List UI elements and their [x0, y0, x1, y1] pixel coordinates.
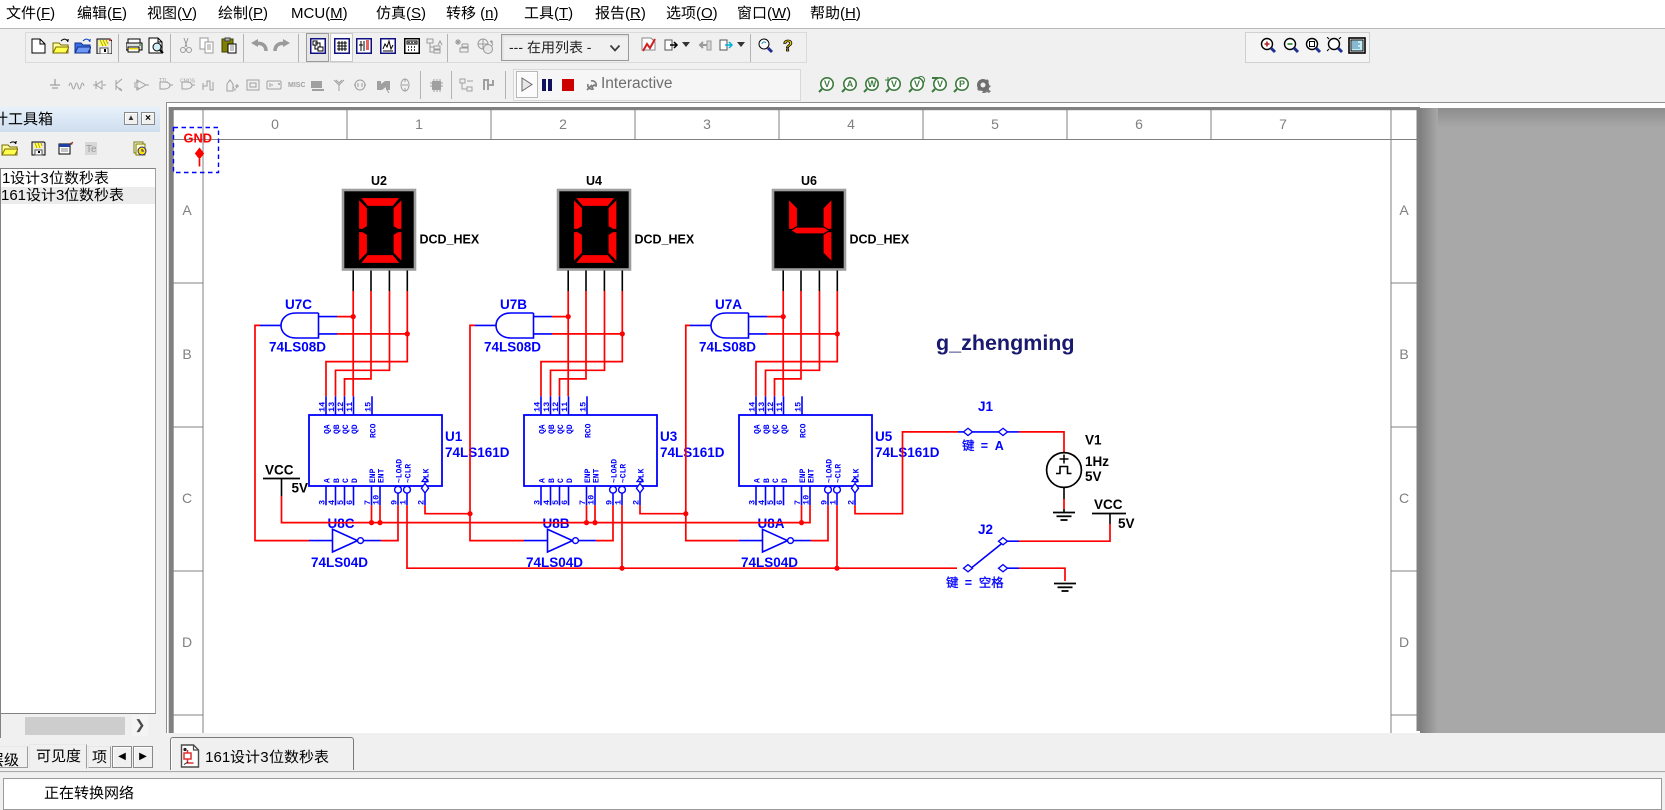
svg-text:V: V [914, 79, 920, 89]
switch J2 (SPDT, arm up), key = space [964, 522, 1020, 572]
svg-text:0: 0 [271, 116, 279, 132]
wire VCC to J2 throw 1 [1019, 524, 1110, 541]
svg-text:V: V [233, 87, 237, 92]
svg-text:g_zhengming: g_zhengming [936, 331, 1075, 355]
svg-text:V: V [891, 79, 897, 89]
seven-segment display U4 DCD_HEX [558, 174, 695, 270]
sheet border frame [167, 103, 1665, 733]
svg-text:C: C [1399, 490, 1409, 506]
svg-text:B: B [763, 478, 772, 483]
svg-text:74LS04D: 74LS04D [311, 555, 368, 570]
power VCC 5V (right) [1092, 497, 1135, 531]
wire QB jog display pin3 group 2 [551, 291, 605, 396]
svg-text:P: P [959, 79, 965, 89]
node label g_zhengming [936, 331, 1075, 355]
svg-text:U7B: U7B [500, 297, 527, 312]
wire AND gate inputs group 3 [767, 317, 837, 334]
AND gate U7B 74LS08D (mirrored) [475, 297, 552, 355]
svg-text:U3: U3 [660, 429, 678, 444]
svg-text:74LS08D: 74LS08D [484, 340, 541, 355]
svg-text:D: D [182, 634, 192, 650]
svg-text:74LS161D: 74LS161D [660, 445, 725, 460]
svg-text:6: 6 [560, 500, 570, 505]
svg-text:~LOAD: ~LOAD [611, 459, 620, 483]
svg-text:5: 5 [991, 116, 999, 132]
svg-text:C: C [772, 478, 781, 483]
svg-text:~CLR: ~CLR [835, 464, 844, 483]
svg-text:U8A: U8A [758, 516, 785, 531]
svg-text:QC: QC [557, 424, 566, 434]
wire U7C output to U8C input [255, 325, 309, 540]
svg-text:U8B: U8B [543, 516, 570, 531]
svg-text:D: D [781, 478, 790, 483]
wire U8A out to U5 ~LOAD [811, 505, 828, 540]
wire QA jog display pin4 group 2 [541, 291, 625, 396]
svg-text:~CLR: ~CLR [405, 464, 414, 483]
wire V1 to ground [1063, 499, 1065, 509]
wire QC jog display pin2 group 1 [345, 291, 372, 396]
svg-text:MISC: MISC [288, 82, 305, 89]
svg-text:=: = [965, 576, 972, 590]
svg-text:V: V [937, 79, 943, 89]
svg-text:Te: Te [86, 144, 97, 155]
svg-text:2: 2 [417, 500, 427, 505]
wire VCC 5V bus to ENP/ENT pins [282, 496, 811, 525]
svg-text:5V: 5V [1118, 516, 1135, 531]
inverter U8A 74LS04D [739, 516, 811, 570]
svg-text:74LS161D: 74LS161D [875, 445, 940, 460]
svg-text:2: 2 [632, 500, 642, 505]
wire U7A output to U3 CLK node and U8A input [686, 325, 739, 540]
svg-text:15: 15 [794, 402, 804, 412]
svg-text:QA: QA [324, 424, 333, 434]
svg-text:DCD_HEX: DCD_HEX [850, 233, 910, 247]
svg-text:~LOAD: ~LOAD [396, 459, 405, 483]
voltage source V1 1Hz 5V clock [1047, 433, 1110, 500]
wire QA jog display pin4 group 1 [326, 291, 410, 396]
wire J2 throw 2 to ground [1019, 568, 1065, 581]
svg-text:1: 1 [399, 500, 409, 505]
svg-text:W: W [868, 79, 877, 89]
svg-text:A: A [1399, 202, 1409, 218]
svg-text:~CLR: ~CLR [620, 464, 629, 483]
svg-text:74LS08D: 74LS08D [269, 340, 326, 355]
sheet zone labels [182, 116, 1409, 650]
svg-text:VCC: VCC [265, 463, 294, 478]
svg-text:A: A [539, 478, 548, 483]
svg-text:A: A [182, 202, 192, 218]
svg-text:U7C: U7C [285, 297, 312, 312]
svg-text:1: 1 [614, 500, 624, 505]
svg-text:C: C [342, 478, 351, 483]
svg-text:A: A [754, 478, 763, 483]
svg-text:U5: U5 [875, 429, 893, 444]
svg-text:QD: QD [566, 424, 575, 434]
svg-text:ENT: ENT [808, 468, 817, 483]
svg-text:=: = [981, 439, 988, 453]
svg-text:B: B [333, 478, 342, 483]
svg-text:3: 3 [318, 500, 328, 505]
counter U1 74LS161D [309, 396, 510, 505]
svg-text:74LS08D: 74LS08D [699, 340, 756, 355]
svg-text:A: A [324, 478, 333, 483]
svg-text:1Hz: 1Hz [1085, 454, 1109, 469]
wire QC jog display pin2 group 3 [775, 291, 802, 396]
wire QD column display pin1 group 2 [566, 291, 571, 396]
svg-text:10: 10 [372, 495, 382, 505]
svg-text:GND: GND [184, 131, 212, 146]
wire U5 CLK to J1 [855, 432, 958, 514]
display U6 pin stubs [783, 271, 837, 292]
svg-text:U7A: U7A [715, 297, 742, 312]
svg-text:B: B [182, 346, 191, 362]
svg-text:U4: U4 [586, 174, 602, 188]
svg-text:10: 10 [802, 495, 812, 505]
AND gate U7C 74LS08D (mirrored) [260, 297, 337, 355]
display U4 pin stubs [568, 271, 622, 292]
svg-text:TTL: TTL [159, 78, 168, 84]
svg-text:5V: 5V [292, 481, 309, 496]
svg-text:ENT: ENT [593, 468, 602, 483]
display U2 pin stubs [353, 271, 407, 292]
svg-text:15: 15 [364, 402, 374, 412]
inverter U8B 74LS04D [524, 516, 596, 570]
svg-text:DCD_HEX: DCD_HEX [635, 233, 695, 247]
AND gate U7A 74LS08D (mirrored) [690, 297, 767, 355]
ground GND (selected) [174, 128, 219, 173]
wire U8C out to U1 ~LOAD [381, 505, 398, 540]
wire ~CLR line U1/U3/U5 to J2 [407, 505, 957, 571]
svg-text:QC: QC [342, 424, 351, 434]
inverter U8C 74LS04D [309, 516, 381, 570]
svg-text:V: V [824, 79, 830, 89]
svg-text:6: 6 [775, 500, 785, 505]
wire QA jog display pin4 group 3 [756, 291, 840, 396]
svg-text:QB: QB [333, 424, 342, 434]
svg-text:J2: J2 [978, 522, 993, 537]
svg-text:10: 10 [587, 495, 597, 505]
wire U8B out to U3 ~LOAD [596, 505, 613, 540]
svg-text:?: ? [783, 38, 793, 54]
svg-text:U8C: U8C [328, 516, 355, 531]
seven-segment display U2 DCD_HEX [343, 174, 480, 270]
svg-text:15: 15 [579, 402, 589, 412]
wire QD column display pin1 group 3 [781, 291, 786, 396]
wire U7B output to U1 CLK node and U8B input [470, 325, 524, 540]
svg-text:QA: QA [754, 424, 763, 434]
svg-text:U1: U1 [445, 429, 463, 444]
svg-text:RCO: RCO [585, 423, 594, 438]
svg-text:14: 14 [533, 402, 543, 412]
ground below J2 [1054, 584, 1076, 592]
svg-text:D: D [566, 478, 575, 483]
svg-text:QB: QB [548, 424, 557, 434]
wire QD column display pin1 group 1 [351, 291, 356, 396]
svg-text:11: 11 [775, 402, 785, 412]
svg-text:QD: QD [351, 424, 360, 434]
svg-text:74LS161D: 74LS161D [445, 445, 510, 460]
wire U1 CLK to node [425, 505, 473, 516]
svg-text:QD: QD [781, 424, 790, 434]
wire J1 to V1 [1019, 432, 1064, 453]
svg-text:RCO: RCO [800, 423, 809, 438]
svg-text:2: 2 [559, 116, 567, 132]
svg-text:14: 14 [318, 402, 328, 412]
svg-text:V1: V1 [1085, 433, 1102, 448]
wire U3 CLK to node [640, 505, 688, 516]
wire QB jog display pin3 group 1 [336, 291, 390, 396]
svg-text:ENT: ENT [378, 468, 387, 483]
svg-text:CMOS: CMOS [180, 79, 196, 85]
svg-text:J1: J1 [978, 399, 994, 414]
svg-text:A: A [847, 79, 854, 89]
wire AND gate inputs group 2 [552, 317, 622, 334]
svg-text:D: D [351, 478, 360, 483]
svg-text:B: B [1399, 346, 1408, 362]
switch J1 (closed), key = A [958, 399, 1019, 436]
wire QC jog display pin2 group 2 [560, 291, 587, 396]
counter U3 74LS161D [524, 396, 725, 505]
svg-text:RCO: RCO [370, 423, 379, 438]
svg-text:14: 14 [748, 402, 758, 412]
wire AND gate inputs group 1 [337, 317, 407, 334]
svg-text:D: D [1399, 634, 1409, 650]
svg-text:~LOAD: ~LOAD [826, 459, 835, 483]
svg-text:3: 3 [533, 500, 543, 505]
ground below V1 [1053, 509, 1075, 520]
svg-text:3: 3 [748, 500, 758, 505]
svg-text:11: 11 [560, 402, 570, 412]
svg-text:11: 11 [345, 402, 355, 412]
svg-text:A: A [995, 439, 1004, 453]
svg-text:3: 3 [703, 116, 711, 132]
svg-text:4: 4 [847, 116, 855, 132]
svg-text:QC: QC [772, 424, 781, 434]
power VCC 5V (left) [263, 463, 308, 497]
svg-text:U2: U2 [371, 174, 387, 188]
svg-text:QA: QA [539, 424, 548, 434]
label key = space [946, 576, 1003, 590]
counter U5 74LS161D [739, 396, 940, 505]
svg-text:6: 6 [1135, 116, 1143, 132]
label key = A [962, 439, 1004, 453]
svg-text:C: C [182, 490, 192, 506]
seven-segment display U6 DCD_HEX [773, 174, 910, 270]
svg-text:1: 1 [829, 500, 839, 505]
svg-text:QB: QB [763, 424, 772, 434]
svg-text:7: 7 [1279, 116, 1287, 132]
svg-text:1: 1 [415, 116, 423, 132]
svg-text:U6: U6 [801, 174, 817, 188]
svg-text:2: 2 [847, 500, 857, 505]
svg-text:DCD_HEX: DCD_HEX [420, 233, 480, 247]
svg-text:5V: 5V [1085, 469, 1102, 484]
svg-text:B: B [548, 478, 557, 483]
svg-text:C: C [557, 478, 566, 483]
wire QB jog display pin3 group 3 [766, 291, 820, 396]
svg-text:6: 6 [345, 500, 355, 505]
svg-text:VCC: VCC [1094, 497, 1123, 512]
